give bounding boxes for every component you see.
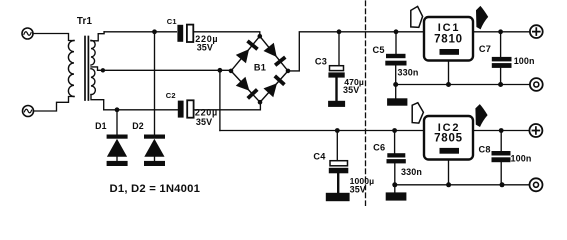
svg-text:D1, D2 = 1N4001: D1, D2 = 1N4001 — [110, 183, 201, 195]
svg-text:D2: D2 — [132, 121, 143, 131]
svg-text:7810: 7810 — [434, 33, 463, 45]
svg-text:C4: C4 — [313, 152, 326, 162]
svg-text:330n: 330n — [401, 167, 422, 177]
svg-text:220µ: 220µ — [195, 107, 218, 117]
svg-text:IC1: IC1 — [438, 22, 461, 34]
svg-text:35V: 35V — [196, 117, 212, 127]
svg-text:C3: C3 — [315, 56, 327, 66]
svg-text:C6: C6 — [373, 143, 385, 153]
svg-text:C7: C7 — [479, 44, 491, 54]
svg-text:330n: 330n — [398, 68, 419, 78]
svg-text:35V: 35V — [350, 185, 366, 195]
svg-text:B1: B1 — [254, 63, 266, 73]
svg-text:C5: C5 — [373, 45, 385, 55]
svg-text:1000µ: 1000µ — [350, 176, 375, 186]
svg-text:D1: D1 — [95, 121, 106, 131]
svg-text:470µ: 470µ — [344, 77, 364, 87]
svg-text:7805: 7805 — [434, 132, 463, 144]
svg-text:100n: 100n — [514, 56, 535, 66]
svg-text:C2: C2 — [166, 91, 176, 100]
svg-text:C1: C1 — [167, 17, 177, 26]
svg-text:Tr1: Tr1 — [77, 16, 93, 27]
svg-text:35V: 35V — [197, 43, 213, 53]
svg-text:C8: C8 — [479, 144, 491, 154]
svg-text:100n: 100n — [511, 154, 532, 164]
